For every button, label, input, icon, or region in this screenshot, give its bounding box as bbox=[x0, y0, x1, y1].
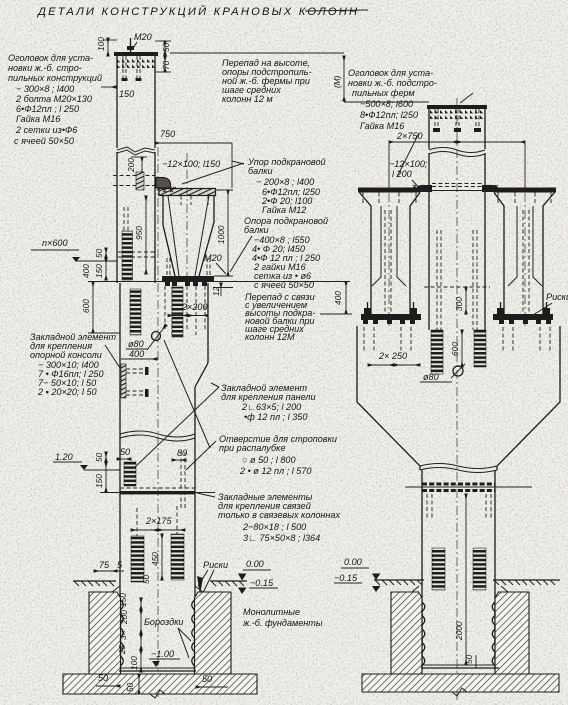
svg-text:ø80: ø80 bbox=[423, 372, 439, 382]
svg-text:2−80×18 ; l 500: 2−80×18 ; l 500 bbox=[242, 522, 306, 532]
svg-text:•ф 12 пл ; l 350: •ф 12 пл ; l 350 bbox=[244, 412, 307, 422]
rebar strips bottom shaft bbox=[131, 536, 144, 582]
svg-text:150: 150 bbox=[94, 264, 104, 278]
svg-text:1000: 1000 bbox=[216, 225, 226, 244]
right cap plate bbox=[427, 105, 487, 109]
svg-text:150: 150 bbox=[119, 89, 134, 99]
svg-text:0.00: 0.00 bbox=[246, 559, 264, 569]
svg-text:2 • ø 12 пл ; l 570: 2 • ø 12 пл ; l 570 bbox=[239, 466, 311, 476]
upor block bbox=[156, 178, 171, 189]
hole d80 right bbox=[453, 366, 463, 376]
svg-text:−12×100;: −12×100; bbox=[389, 159, 428, 169]
leader to cap bbox=[460, 93, 473, 103]
right cap bolts bbox=[434, 109, 436, 128]
svg-text:балки: балки bbox=[248, 166, 273, 176]
svg-text:−0.15: −0.15 bbox=[250, 578, 274, 588]
svg-text:−12×100; l150: −12×100; l150 bbox=[162, 159, 220, 169]
svg-text:Оголовок для уста-: Оголовок для уста- bbox=[8, 53, 93, 63]
svg-text:Гайка М16: Гайка М16 bbox=[16, 114, 61, 124]
cap anchor bolt M20 bbox=[127, 46, 134, 50]
dim 1000 bbox=[227, 190, 229, 276]
svg-text:70: 70 bbox=[161, 60, 171, 70]
svg-text:1.20: 1.20 bbox=[55, 452, 73, 462]
svg-text:2× 250: 2× 250 bbox=[378, 351, 407, 361]
svg-text:200: 200 bbox=[119, 610, 129, 625]
rebar strips below bracket bbox=[130, 289, 141, 335]
svg-text:−500×8; l600: −500×8; l600 bbox=[360, 99, 413, 109]
svg-text:Гайка М16: Гайка М16 bbox=[360, 121, 405, 131]
svg-text:2 ▪ 20×20; l 50: 2 ▪ 20×20; l 50 bbox=[37, 387, 97, 397]
ground line right of left column bbox=[210, 581, 247, 586]
svg-text:6•Ф12пл ; l 250: 6•Ф12пл ; l 250 bbox=[16, 104, 79, 114]
left bracket of right column bbox=[358, 188, 420, 193]
perepad vertical dim (M) bbox=[343, 56, 345, 101]
svg-text:новки ж.-б. подстро-: новки ж.-б. подстро- bbox=[348, 78, 437, 88]
svg-text:400: 400 bbox=[81, 264, 91, 278]
svg-text:400: 400 bbox=[333, 291, 343, 305]
middle shaft continues bbox=[428, 192, 430, 330]
long line at bracket base level bbox=[120, 281, 350, 283]
lower shaft outline bbox=[119, 283, 121, 673]
dotted line 300 bbox=[424, 286, 490, 288]
svg-text:пильных конструкций: пильных конструкций bbox=[8, 73, 102, 83]
svg-text:новки ж.-б. стро-: новки ж.-б. стро- bbox=[8, 63, 82, 73]
bracket top plate bbox=[159, 189, 216, 196]
seat level line across column bbox=[420, 190, 494, 192]
chain dims 50 150 left bbox=[105, 452, 107, 462]
perepad line from left cap to right bbox=[170, 52, 344, 54]
annotation: perepad s svyazi bbox=[245, 292, 315, 342]
svg-text:100: 100 bbox=[96, 37, 106, 51]
dim 200 upper bracket bbox=[141, 157, 143, 175]
dim 600 bbox=[461, 330, 463, 367]
svg-text:8•Ф12пл; l250: 8•Ф12пл; l250 bbox=[360, 110, 418, 120]
right cup floor bbox=[421, 667, 499, 669]
funnel transition bbox=[357, 326, 420, 470]
svg-text:с ячеей 50×50: с ячеей 50×50 bbox=[14, 136, 74, 146]
svg-text:Бороздки: Бороздки bbox=[144, 617, 184, 627]
left column: cap plate with mesh bbox=[114, 52, 158, 56]
slab bottom break bbox=[150, 690, 165, 698]
svg-text:2×200: 2×200 bbox=[181, 302, 208, 312]
dim 50 / 70 right of cap bbox=[164, 41, 166, 55]
dim 2000 bbox=[465, 494, 467, 665]
neck break bbox=[420, 464, 497, 473]
svg-text:с ячеей 50×50: с ячеей 50×50 bbox=[254, 280, 314, 290]
svg-text:2000: 2000 bbox=[454, 621, 464, 641]
svg-text:600: 600 bbox=[81, 299, 91, 313]
svg-text:М20: М20 bbox=[204, 253, 222, 263]
svg-text:Риски: Риски bbox=[203, 560, 228, 570]
svg-text:2 болта М20×130: 2 болта М20×130 bbox=[15, 94, 92, 104]
svg-text:пильных ферм: пильных ферм bbox=[352, 88, 415, 98]
svg-text:150: 150 bbox=[94, 474, 104, 488]
upor blocks right column bbox=[415, 185, 432, 192]
anchor bolts M20 bbox=[166, 258, 168, 276]
svg-text:балки: балки bbox=[244, 225, 269, 235]
svg-text:опорной консоли: опорной консоли bbox=[30, 350, 102, 360]
svg-text:50: 50 bbox=[464, 654, 474, 664]
base plates bbox=[361, 314, 421, 320]
svg-text:25: 25 bbox=[117, 644, 127, 655]
svg-text:М20: М20 bbox=[134, 32, 152, 42]
svg-text:12: 12 bbox=[211, 286, 221, 296]
zakladnoy element col edge bbox=[123, 207, 125, 231]
bracket base plate bbox=[162, 276, 214, 282]
annotation: monolitnye bbox=[242, 607, 323, 628]
svg-text:Монолитные: Монолитные bbox=[243, 607, 300, 617]
right foundation walls bbox=[391, 592, 422, 674]
svyazi band bbox=[120, 487, 195, 489]
left foundation slab bbox=[63, 674, 257, 694]
small embedded rebar bbox=[124, 462, 136, 486]
svg-text:50: 50 bbox=[161, 42, 171, 52]
left column: break mark upper bbox=[117, 147, 155, 155]
svg-text:50: 50 bbox=[94, 248, 104, 258]
svg-text:3∟ 75×50×8 ; l364: 3∟ 75×50×8 ; l364 bbox=[243, 533, 320, 543]
neck shaft bbox=[421, 470, 423, 665]
annotation: ogolovok right bbox=[348, 68, 437, 131]
svg-text:ДЕТАЛИ КОНСТРУКЦИЙ КРАНОВЫХ: ДЕТАЛИ КОНСТРУКЦИЙ КРАНОВЫХ КОЛОНН bbox=[36, 5, 359, 18]
svg-text:200: 200 bbox=[126, 158, 136, 173]
cup floor bbox=[119, 670, 196, 672]
dim 450 / 50 bbox=[161, 534, 163, 580]
svg-text:колонн 12 м: колонн 12 м bbox=[222, 94, 274, 104]
bolts in branches bbox=[384, 210, 386, 314]
svg-text:2×175: 2×175 bbox=[145, 516, 172, 526]
bracket web bbox=[163, 196, 175, 277]
svg-text:50: 50 bbox=[98, 673, 108, 683]
svg-text:80: 80 bbox=[177, 448, 187, 458]
anchor dashed below base bbox=[164, 286, 166, 330]
svg-text:Оголовок для уста-: Оголовок для уста- bbox=[348, 68, 433, 78]
svg-text:50: 50 bbox=[120, 447, 130, 457]
svg-text:только в связевых колоннах: только в связевых колоннах bbox=[218, 510, 340, 520]
upor embedded plate bbox=[113, 175, 155, 177]
perepad line to right column bbox=[344, 101, 429, 103]
dim 950 bbox=[145, 196, 147, 274]
svyazi band right bbox=[422, 483, 495, 486]
svg-text:2∟63×5; l 200: 2∟63×5; l 200 bbox=[241, 402, 301, 412]
svg-text:ж.-б. фундаменты: ж.-б. фундаменты bbox=[242, 618, 323, 628]
hole d80 bbox=[152, 332, 161, 341]
right foundation slab bbox=[362, 674, 559, 692]
svg-text:0.00: 0.00 bbox=[344, 557, 362, 567]
svg-text:ø80: ø80 bbox=[128, 339, 144, 349]
annotation: zakladnoy paneli bbox=[221, 383, 316, 422]
right column centreline bbox=[456, 98, 458, 700]
left foundation walls bbox=[89, 592, 121, 674]
svg-text:○ ø 50 ; l 800: ○ ø 50 ; l 800 bbox=[242, 455, 296, 465]
svg-text:50: 50 bbox=[125, 682, 135, 692]
annotation: zakladnoy konsoli bbox=[30, 332, 116, 397]
left column: upper shaft bbox=[116, 52, 118, 148]
dim 150 arrow bbox=[101, 86, 116, 88]
svg-text:l 200: l 200 bbox=[392, 169, 412, 179]
right bracket of right column bbox=[494, 188, 556, 193]
svg-text:− 200×8 ; l400: − 200×8 ; l400 bbox=[256, 177, 314, 187]
left chain dims 50 150 400 600 bbox=[105, 248, 107, 258]
console embedded element bbox=[121, 364, 126, 398]
rebar strips right bottom bbox=[432, 548, 445, 590]
svg-text:600: 600 bbox=[450, 342, 460, 356]
svg-text:Риски: Риски bbox=[546, 292, 568, 302]
break mark lower shaft bbox=[120, 431, 195, 441]
annotation: zakladnye svyazey bbox=[218, 492, 340, 543]
anchor dashes below base plates bbox=[363, 327, 365, 352]
svg-text:150: 150 bbox=[118, 593, 128, 607]
svg-text:2×750: 2×750 bbox=[396, 131, 423, 141]
annotation: perepad top bbox=[222, 58, 312, 104]
ground line left of left foundation bbox=[73, 581, 116, 586]
svg-text:− 300×8 ; l400: − 300×8 ; l400 bbox=[16, 84, 74, 94]
svg-text:50: 50 bbox=[202, 674, 212, 684]
svg-text:(М): (М) bbox=[332, 75, 342, 88]
svg-text:300: 300 bbox=[454, 297, 464, 311]
svg-text:−1.00: −1.00 bbox=[151, 649, 174, 659]
svg-text:450: 450 bbox=[150, 552, 160, 566]
svg-text:−0.15: −0.15 bbox=[334, 573, 358, 583]
svg-text:950: 950 bbox=[134, 226, 144, 240]
svg-text:50: 50 bbox=[141, 574, 151, 584]
svg-text:для крепления панели: для крепления панели bbox=[221, 392, 316, 402]
annotation: opora podkranovoy bbox=[244, 216, 328, 290]
svg-text:при распалубке: при распалубке bbox=[219, 443, 286, 453]
dim 100 left of cap bbox=[107, 38, 109, 56]
svg-text:400: 400 bbox=[129, 349, 144, 359]
bracket centreline bbox=[186, 153, 188, 290]
annotation: otverstie bbox=[219, 434, 337, 476]
ground lines right bbox=[374, 580, 424, 585]
left column: centreline bbox=[157, 147, 159, 697]
svg-text:100: 100 bbox=[129, 656, 139, 670]
right column upper shaft bbox=[428, 105, 430, 149]
svg-text:колонн 12М: колонн 12М bbox=[245, 332, 295, 342]
svg-text:50: 50 bbox=[94, 452, 104, 462]
svg-text:n×600: n×600 bbox=[42, 238, 68, 248]
perepad svyazi dim 400 bbox=[345, 282, 347, 315]
rebar strips right mid bbox=[431, 330, 443, 374]
svg-text:2 сетки из•Ф6: 2 сетки из•Ф6 bbox=[15, 125, 78, 135]
dim 12 under base bbox=[220, 283, 222, 296]
annotation: upor podkranovoy bbox=[247, 157, 326, 215]
svg-text:Гайка М12: Гайка М12 bbox=[262, 205, 306, 215]
svg-text:3×: 3× bbox=[118, 630, 128, 640]
slab bottom break bbox=[452, 688, 467, 696]
annotation: ogolovok left bbox=[8, 53, 102, 146]
svg-text:750: 750 bbox=[160, 129, 175, 139]
svg-text:75: 75 bbox=[99, 560, 110, 570]
